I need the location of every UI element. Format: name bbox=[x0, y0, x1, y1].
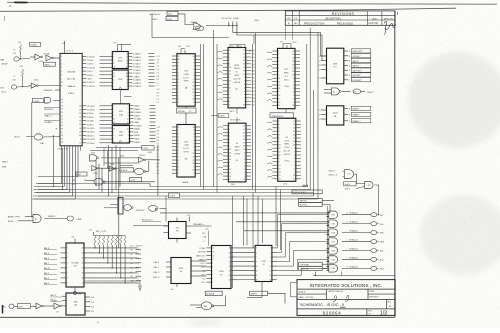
svg-text:18: 18 bbox=[113, 76, 115, 78]
svg-text:5 L5AO8: 5 L5AO8 bbox=[133, 66, 140, 69]
svg-text:10: 10 bbox=[192, 56, 194, 58]
svg-text:15: 15 bbox=[243, 136, 245, 138]
svg-text:I7O4: I7O4 bbox=[186, 46, 190, 48]
svg-text:+ AVB: + AVB bbox=[76, 218, 82, 221]
svg-text:LRORH/T *: LRORH/T * bbox=[352, 80, 362, 82]
svg-text:12: 12 bbox=[243, 129, 245, 131]
svg-text:8: 8 bbox=[178, 127, 179, 129]
corner mark top-left bbox=[15, 1, 26, 3]
gate B 350ns chain bbox=[365, 182, 373, 189]
wire top bus b bbox=[237, 26, 322, 36]
svg-text:I3O4: I3O4 bbox=[251, 84, 255, 86]
IC UART P534 2F bbox=[212, 246, 232, 289]
svg-text:6: 6 bbox=[244, 159, 245, 161]
svg-text:SMTC: SMTC bbox=[235, 150, 241, 152]
svg-text:15: 15 bbox=[126, 70, 128, 72]
svg-text:5: 5 bbox=[293, 88, 294, 90]
svg-text:OBAV( *: OBAV( * bbox=[352, 114, 360, 117]
svg-text:L5A47: L5A47 bbox=[134, 105, 139, 108]
svg-text:L543B: L543B bbox=[134, 135, 140, 137]
buffer gate in H1 chain bbox=[36, 303, 42, 309]
inverter gate LS04 B bbox=[46, 55, 52, 61]
svg-text:15: 15 bbox=[243, 60, 245, 62]
svg-text:13: 13 bbox=[349, 61, 351, 63]
svg-text:BAL 5: BAL 5 bbox=[44, 282, 49, 285]
svg-text:19: 19 bbox=[82, 248, 84, 250]
svg-text:B(LI: B(LI bbox=[380, 224, 384, 226]
svg-text:4: 4 bbox=[244, 166, 245, 168]
svg-text:6: 6 bbox=[293, 85, 294, 87]
svg-text:I2MOS: I2MOS bbox=[234, 68, 240, 70]
svg-text:AC682IA: AC682IA bbox=[206, 293, 214, 296]
svg-text:26: 26 bbox=[192, 170, 194, 172]
svg-text:IO/VAR O: IO/VAR O bbox=[44, 121, 53, 124]
svg-text:IOI4: IOI4 bbox=[77, 174, 81, 176]
svg-text:BOAL(1) L: BOAL(1) L bbox=[350, 248, 359, 251]
svg-text:8 7: 8 7 bbox=[157, 96, 159, 98]
svg-text:14: 14 bbox=[82, 273, 84, 275]
svg-text:5O I4O4+: 5O I4O4+ bbox=[87, 143, 96, 145]
svg-text:+24-A: +24-A bbox=[184, 144, 190, 147]
svg-text:B L: B L bbox=[236, 160, 239, 162]
svg-text:4O45: 4O45 bbox=[331, 215, 335, 217]
svg-text:4: 4 bbox=[229, 136, 230, 138]
svg-text:16: 16 bbox=[82, 263, 84, 265]
prom select label between ROM A bbox=[177, 108, 197, 113]
svg-text:3: 3 bbox=[319, 114, 320, 116]
svg-text:3: 3 bbox=[229, 53, 230, 55]
inverter L504 mid web bbox=[109, 166, 114, 171]
svg-text:2: 2 bbox=[294, 168, 295, 170]
svg-text:L5I32: L5I32 bbox=[53, 300, 58, 302]
svg-text:2: 2 bbox=[178, 147, 179, 149]
svg-text:5: 5 bbox=[128, 109, 129, 111]
inverter LS04 below CPU bbox=[92, 166, 98, 171]
svg-text:12: 12 bbox=[270, 266, 272, 268]
svg-text:THAC O: THAC O bbox=[44, 115, 52, 118]
svg-text:4: 4 bbox=[279, 131, 280, 133]
svg-text:16: 16 bbox=[126, 73, 128, 75]
svg-text:PL/EN: PL/EN bbox=[170, 196, 176, 198]
bus drop wire e3 bbox=[246, 199, 248, 245]
boxed label TBO bbox=[344, 182, 357, 186]
revisions table bbox=[285, 11, 395, 25]
svg-text:BRAI: BRAI bbox=[2, 166, 7, 169]
svg-text:OM5 I7 I9 O9: OM5 I7 I9 O9 bbox=[58, 149, 69, 151]
svg-text:KBUPORT *: KBUPORT * bbox=[352, 51, 363, 53]
svg-text:13: 13 bbox=[256, 266, 258, 268]
BDXTL5 label box bbox=[299, 203, 323, 207]
svg-text:12: 12 bbox=[82, 283, 84, 285]
svg-text:IHI: IHI bbox=[3, 307, 6, 309]
gate row 2 (B(LI) bbox=[329, 220, 338, 227]
svg-text:O8 O4O7: O8 O4O7 bbox=[87, 139, 95, 141]
svg-text:11: 11 bbox=[349, 70, 351, 72]
EN4 oval gate bbox=[134, 168, 143, 174]
inverter gate LS04 A bbox=[35, 54, 41, 60]
svg-text:5I I4O3+: 5I I4O3+ bbox=[87, 117, 95, 119]
svg-text:7: 7 bbox=[61, 60, 62, 62]
svg-text:BOAL(4) L: BOAL(4) L bbox=[350, 230, 359, 233]
corner mark bottom-left bbox=[2, 305, 4, 314]
svg-text:U5I3: U5I3 bbox=[262, 261, 266, 263]
svg-text:BBC O: BBC O bbox=[154, 277, 161, 279]
gate A1B bottom bbox=[201, 302, 211, 310]
svg-text:UPOKB *: UPOKB * bbox=[352, 56, 361, 58]
wire reset into CPU bbox=[54, 57, 60, 59]
svg-text:4O45: 4O45 bbox=[331, 268, 335, 270]
IC SRAM 2Kx8 lower 6.2 bbox=[278, 118, 296, 181]
svg-text:BOAL(2) L: BOAL(2) L bbox=[350, 212, 359, 215]
svg-text:13: 13 bbox=[318, 65, 320, 67]
UDFTNE label box bbox=[299, 262, 323, 266]
svg-text:I5 L5AO5: I5 L5AO5 bbox=[133, 53, 141, 56]
svg-text:57: 57 bbox=[61, 102, 63, 104]
svg-text:0: 0 bbox=[178, 153, 179, 155]
svg-text:4 O4O+E: 4 O4O+E bbox=[87, 56, 96, 58]
svg-text:I L5AOC: I L5AOC bbox=[133, 75, 141, 78]
svg-text:IL2O: IL2O bbox=[168, 14, 173, 16]
svg-text:16: 16 bbox=[229, 257, 231, 259]
wire web extra horizontals bbox=[96, 147, 142, 149]
vertical wire x158 bbox=[157, 145, 159, 196]
svg-text:I5O4: I5O4 bbox=[251, 88, 255, 90]
svg-text:14: 14 bbox=[256, 270, 258, 272]
svg-text:27I6: 27I6 bbox=[184, 141, 188, 143]
svg-text:IO45: IO45 bbox=[91, 153, 95, 155]
svg-text:I74: I74 bbox=[333, 91, 335, 93]
RAM C lower left pin hooks bbox=[267, 121, 272, 124]
svg-text:16: 16 bbox=[292, 64, 294, 66]
svg-text:5: 5 bbox=[61, 64, 62, 66]
svg-text:L5A39: L5A39 bbox=[134, 128, 139, 131]
svg-text:4O45: 4O45 bbox=[331, 232, 335, 234]
svg-text:7: 7 bbox=[113, 60, 114, 62]
svg-text:L34B I: L34B I bbox=[254, 20, 260, 22]
gate row 7 (RK2) bbox=[329, 265, 338, 272]
COPIUS label box bbox=[292, 190, 322, 194]
svg-text:I52: I52 bbox=[72, 237, 75, 239]
svg-text:BLRU +: BLRU + bbox=[8, 221, 16, 223]
oval gate below CPU bbox=[94, 178, 103, 185]
svg-text:19: 19 bbox=[270, 280, 272, 282]
svg-text:5: 5 bbox=[193, 143, 194, 145]
svg-text:16: 16 bbox=[270, 275, 272, 277]
svg-text:7: 7 bbox=[128, 138, 129, 140]
RAM C upper left pin hooks bbox=[267, 51, 272, 54]
svg-text:+OO: +OO bbox=[130, 246, 135, 248]
wire top bus a bbox=[233, 26, 321, 33]
svg-text:3: 3 bbox=[193, 150, 194, 152]
svg-text:47: 47 bbox=[61, 132, 63, 134]
svg-text:27I6: 27I6 bbox=[184, 70, 188, 72]
svg-text:83O2IA: 83O2IA bbox=[67, 71, 75, 74]
svg-text:2: 2 bbox=[193, 173, 194, 175]
svg-text:6+O-O: 6+O-O bbox=[183, 77, 189, 79]
svg-text:BAL IO: BAL IO bbox=[44, 247, 51, 250]
IC decoder LS138 G1 bbox=[327, 48, 344, 84]
reset net label bbox=[43, 62, 55, 66]
svg-text:BESUS (O)+: BESUS (O)+ bbox=[150, 14, 162, 16]
svg-text:974: 974 bbox=[176, 227, 179, 229]
RAM B lower pin stubs bbox=[223, 125, 228, 127]
svg-text:16: 16 bbox=[278, 102, 280, 104]
IC latch L373 upper bbox=[112, 52, 128, 69]
svg-text:L5A47: L5A47 bbox=[134, 138, 139, 141]
svg-text:9: 9 bbox=[80, 139, 81, 141]
reset-h label box bbox=[30, 42, 41, 46]
svg-text:DESCRIPTION: DESCRIPTION bbox=[325, 18, 341, 20]
BESET label box bbox=[250, 291, 268, 295]
svg-text:23: 23 bbox=[229, 149, 231, 151]
svg-text:2: 2 bbox=[61, 67, 62, 69]
svg-text:BAL IO: BAL IO bbox=[44, 267, 51, 270]
svg-text:IUPORT *: IUPORT * bbox=[352, 75, 361, 77]
svg-text:3: 3 bbox=[293, 95, 294, 97]
svg-text:BOI: BOI bbox=[1, 88, 5, 90]
svg-text:5: 5 bbox=[279, 128, 280, 130]
latch output stubs lower bbox=[130, 105, 134, 107]
vertical bus wire 5 bbox=[252, 44, 254, 190]
svg-text:5: 5 bbox=[178, 166, 179, 168]
wire drop to RAM B top bbox=[253, 35, 255, 44]
svg-text:5: 5 bbox=[113, 83, 114, 85]
svg-text:19: 19 bbox=[243, 149, 245, 151]
svg-text:L5O4: L5O4 bbox=[39, 61, 44, 63]
stair fan wires U573 to gates bbox=[277, 215, 328, 248]
svg-text:8: 8 bbox=[278, 51, 279, 53]
svg-text:#2.IIns: #2.IIns bbox=[284, 161, 289, 163]
svg-text:APREI , PRI3: APREI , PRI3 bbox=[8, 216, 20, 219]
svg-text:2: 2 bbox=[229, 84, 230, 86]
svg-text:5O45: 5O45 bbox=[331, 223, 335, 225]
15025B input labels bbox=[61, 247, 67, 249]
IC 15025B DH bbox=[66, 243, 84, 287]
svg-text:2: 2 bbox=[128, 105, 129, 107]
svg-text:1: 1 bbox=[178, 150, 179, 152]
svg-text:2: 2 bbox=[229, 94, 230, 96]
svg-text:5.7a: 5.7a bbox=[137, 283, 140, 285]
svg-text:6: 6 bbox=[193, 140, 194, 142]
svg-text:8KX8: 8KX8 bbox=[235, 65, 239, 67]
wire web below CPU bbox=[61, 151, 63, 184]
svg-text:15: 15 bbox=[270, 270, 272, 272]
svg-text:4534: 4534 bbox=[119, 135, 123, 137]
svg-text:19: 19 bbox=[278, 85, 280, 87]
svg-text:7: 7 bbox=[193, 137, 194, 139]
svg-text:2: 2 bbox=[244, 98, 245, 100]
oval gate MOBLA 1 bbox=[124, 205, 132, 211]
svg-text:#2.IIns: #2.IIns bbox=[284, 86, 289, 88]
svg-text:53: 53 bbox=[79, 132, 81, 134]
svg-text:8: 8 bbox=[178, 66, 179, 68]
gate A 350ns chain bbox=[344, 170, 353, 179]
svg-text:6 5: 6 5 bbox=[157, 102, 159, 104]
svg-text:CT5 O: CT5 O bbox=[201, 267, 206, 269]
gate input bus vertical bbox=[327, 206, 329, 268]
svg-text:13: 13 bbox=[292, 58, 294, 60]
svg-text:6: 6 bbox=[128, 112, 129, 114]
svg-text:O8 O4O7: O8 O4O7 bbox=[87, 106, 95, 108]
svg-text:23: 23 bbox=[192, 92, 194, 94]
svg-text:50: 50 bbox=[61, 122, 63, 124]
svg-text:3: 3 bbox=[193, 79, 194, 81]
svg-text:5: 5 bbox=[178, 76, 179, 78]
svg-text:1: 1 bbox=[279, 141, 280, 143]
svg-text:6: 6 bbox=[279, 124, 280, 126]
gate row 6 (AC)) bbox=[329, 256, 338, 263]
svg-text:2O(I): 2O(I) bbox=[283, 183, 287, 185]
vertical bus wire 6 bbox=[255, 33, 257, 193]
svg-text:IOA5: IOA5 bbox=[40, 142, 44, 145]
svg-text:7 L5AO6: 7 L5AO6 bbox=[133, 69, 140, 72]
bus wire LEAOA 1 bbox=[36, 184, 307, 187]
svg-text:9 8: 9 8 bbox=[157, 92, 159, 94]
IC L3C16 3F bbox=[171, 258, 191, 284]
svg-text:15: 15 bbox=[82, 268, 84, 270]
svg-text:15: 15 bbox=[292, 61, 294, 63]
svg-text:I5Ons: I5Ons bbox=[284, 79, 289, 81]
svg-text:19: 19 bbox=[293, 145, 295, 147]
svg-text:21: 21 bbox=[229, 280, 231, 282]
KBXTH label box bbox=[299, 198, 323, 202]
svg-text:52: 52 bbox=[61, 115, 63, 117]
svg-text:+24-A: +24-A bbox=[184, 73, 190, 76]
svg-text:E3: E3 bbox=[131, 263, 133, 265]
svg-text:GNO+8: GNO+8 bbox=[284, 154, 290, 156]
svg-text:18: 18 bbox=[278, 88, 280, 90]
svg-text:5O I4O4+: 5O I4O4+ bbox=[87, 110, 96, 112]
RAM C upper pin stubs bbox=[272, 50, 277, 52]
svg-text:BE5ET*: BE5ET* bbox=[251, 294, 258, 296]
svg-text:DATE : 16/27/80: DATE : 16/27/80 bbox=[298, 296, 314, 299]
svg-text:55: 55 bbox=[61, 105, 63, 107]
svg-text:5: 5 bbox=[178, 137, 179, 139]
svg-text:17: 17 bbox=[82, 258, 84, 260]
svg-text:8: 8 bbox=[178, 160, 179, 162]
svg-text:RELEASED: RELEASED bbox=[337, 21, 353, 25]
svg-text:12: 12 bbox=[349, 65, 351, 67]
svg-text:12: 12 bbox=[127, 119, 129, 121]
CPU bottom pin stubs bbox=[61, 146, 63, 151]
svg-text:9: 9 bbox=[178, 62, 179, 64]
svg-text:28: 28 bbox=[79, 106, 81, 108]
svg-text:3: 3 bbox=[244, 169, 245, 171]
title block bbox=[297, 280, 395, 316]
svg-text:4: 4 bbox=[278, 64, 279, 66]
svg-text:7: 7 bbox=[244, 81, 245, 83]
RAM B upper pin stubs bbox=[223, 49, 228, 51]
svg-text:4 O4O+E: 4 O4O+E bbox=[87, 86, 96, 88]
svg-text:2: 2 bbox=[278, 71, 279, 73]
svg-text:5 L5A4O: 5 L5A4O bbox=[134, 124, 142, 127]
wire down to LS138 bbox=[321, 32, 327, 56]
bus drop wire e bbox=[275, 187, 277, 247]
svg-text:8: 8 bbox=[61, 86, 62, 88]
svg-text:O4 I434: O4 I434 bbox=[87, 121, 94, 123]
svg-text:4: 4 bbox=[178, 79, 179, 81]
svg-text:KBOUT *: KBOUT * bbox=[352, 66, 360, 68]
svg-text:1: 1 bbox=[244, 101, 245, 103]
svg-text:4: 4 bbox=[113, 109, 114, 111]
svg-text:9: 9 bbox=[244, 152, 245, 154]
svg-text:RK2: RK2 bbox=[380, 269, 384, 271]
svg-text:74S 74 I37 7A: 74S 74 I37 7A bbox=[230, 118, 242, 121]
L204 label box bbox=[130, 177, 142, 181]
svg-text:27: 27 bbox=[229, 98, 231, 100]
svg-text:7: 7 bbox=[279, 121, 280, 123]
wire jog left of RAM B select bbox=[211, 115, 218, 117]
svg-text:KBO4 *: KBO4 * bbox=[352, 61, 359, 63]
svg-text:L5A4I: L5A4I bbox=[134, 121, 139, 124]
svg-text:BOcur: BOcur bbox=[2, 91, 7, 94]
svg-text:4 3: 4 3 bbox=[157, 76, 159, 78]
svg-text:4: 4 bbox=[178, 170, 179, 172]
svg-text:5RAI O: 5RAI O bbox=[2, 161, 8, 164]
svg-text:15: 15 bbox=[278, 105, 280, 107]
approved-by signature 1 bbox=[333, 296, 336, 302]
648 outputs bbox=[85, 296, 90, 298]
svg-text:46: 46 bbox=[61, 135, 63, 137]
svg-text:7: 7 bbox=[127, 86, 128, 88]
svg-text:13: 13 bbox=[113, 119, 115, 121]
svg-text:DATE: DATE bbox=[372, 17, 378, 20]
gate input horizontals bbox=[160, 212, 329, 214]
svg-text:4: 4 bbox=[193, 147, 194, 149]
svg-text:6: 6 bbox=[319, 78, 320, 80]
svg-text:11: 11 bbox=[318, 69, 320, 71]
svg-text:18: 18 bbox=[229, 159, 231, 161]
svg-text:3 2: 3 2 bbox=[157, 150, 159, 152]
svg-text:54: 54 bbox=[61, 109, 63, 111]
svg-text:28 PIN: 28 PIN bbox=[234, 153, 240, 155]
svg-text:O3: O3 bbox=[56, 311, 58, 313]
svg-text:1: 1 bbox=[294, 172, 295, 174]
svg-text:14: 14 bbox=[113, 70, 115, 72]
wire - long top horizontal run bbox=[0, 8, 456, 11]
svg-text:18: 18 bbox=[243, 70, 245, 72]
svg-text:7 6: 7 6 bbox=[157, 137, 159, 139]
svg-text:19: 19 bbox=[292, 75, 294, 77]
svg-text:GL.: GL. bbox=[235, 72, 238, 74]
svg-text:6: 6 bbox=[113, 86, 114, 88]
svg-text:BAL 3: BAL 3 bbox=[44, 272, 49, 275]
L3C16 outputs bbox=[191, 260, 207, 262]
svg-text:3: 3 bbox=[294, 165, 295, 167]
svg-text:OCO O: OCO O bbox=[200, 263, 206, 265]
connector cell left of title block bbox=[291, 283, 298, 297]
svg-text:2: 2 bbox=[229, 142, 230, 144]
svg-text:I7O5: I7O5 bbox=[231, 46, 234, 48]
svg-text:10: 10 bbox=[192, 127, 194, 129]
IC U1 83021A CPU bbox=[60, 53, 82, 145]
svg-text:I5 L5AO5: I5 L5AO5 bbox=[133, 79, 141, 82]
bus wire LEAOA 3 bbox=[36, 192, 314, 194]
svg-text:I7O4: I7O4 bbox=[251, 67, 255, 69]
svg-text:10: 10 bbox=[349, 75, 351, 77]
svg-text:8 7: 8 7 bbox=[157, 63, 159, 65]
wires P534 to U573 bbox=[236, 247, 255, 249]
svg-text:6 5: 6 5 bbox=[157, 140, 159, 142]
svg-text:APPROVED BY :: APPROVED BY : bbox=[329, 290, 345, 293]
svg-text:IIO4: IIO4 bbox=[251, 105, 254, 107]
svg-text:OR/OUT: OR/OUT bbox=[136, 246, 144, 248]
svg-text:6: 6 bbox=[229, 129, 230, 131]
svg-text:2: 2 bbox=[244, 173, 245, 175]
vertical bus wire 3 bbox=[216, 44, 218, 193]
svg-text:8: 8 bbox=[193, 62, 194, 64]
svg-text:23: 23 bbox=[278, 78, 280, 80]
